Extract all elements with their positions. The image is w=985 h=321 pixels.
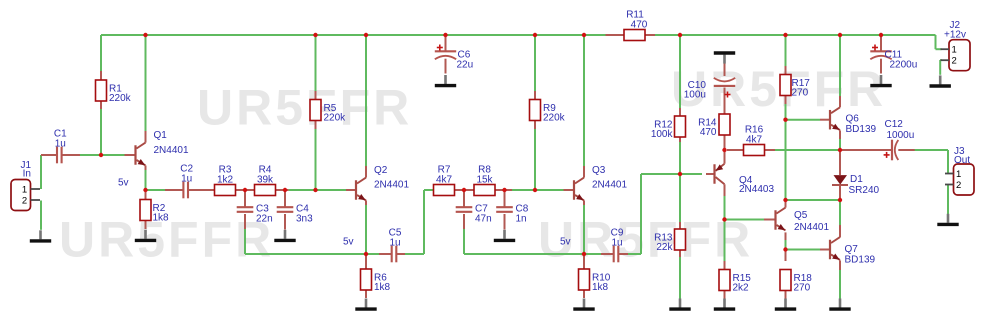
- wire: [62, 154, 80, 156]
- wire: [601, 253, 614, 255]
- wire: [724, 184, 726, 196]
- wire: [679, 222, 681, 229]
- wire: [275, 189, 289, 191]
- svg-text:C12: C12: [885, 119, 904, 130]
- resistor R16: [744, 125, 765, 156]
- svg-text:1u: 1u: [181, 174, 192, 185]
- junction: [838, 198, 842, 202]
- wire: [724, 152, 726, 164]
- capacitor C6: [435, 45, 474, 71]
- wire: [445, 37, 447, 51]
- wire: [379, 253, 392, 255]
- junction: [838, 148, 842, 152]
- ground (J1): [30, 230, 51, 241]
- svg-text:2N4401: 2N4401: [592, 180, 627, 191]
- wire: [645, 34, 656, 36]
- wire: [786, 249, 821, 251]
- wire: [564, 189, 575, 191]
- wire: [839, 260, 841, 270]
- wire: [315, 35, 317, 100]
- wire: [189, 189, 215, 191]
- wire: [284, 191, 286, 207]
- junction: [533, 188, 537, 192]
- ground (C10, inverted): [714, 53, 735, 64]
- wire: [463, 190, 465, 207]
- wire: [145, 131, 147, 143]
- wire: [244, 214, 246, 229]
- svg-text:1: 1: [956, 169, 961, 180]
- wire: [40, 201, 42, 230]
- diode D1: [832, 174, 880, 196]
- wire: [785, 250, 787, 262]
- ground (C11): [870, 75, 891, 86]
- svg-text:2N4403: 2N4403: [739, 184, 774, 195]
- svg-text:BD139: BD139: [846, 124, 877, 135]
- wire: [820, 249, 831, 251]
- wire: [463, 229, 465, 254]
- svg-text:270: 270: [794, 283, 811, 294]
- svg-text:1: 1: [952, 45, 957, 56]
- wire: [724, 291, 726, 300]
- wire: [244, 191, 246, 207]
- ground (R13): [669, 299, 690, 310]
- resistor R12: [651, 116, 686, 140]
- wire: [679, 137, 681, 142]
- svg-text:220k: 220k: [324, 113, 347, 124]
- watermark UR5FFR 1: [197, 80, 412, 136]
- wire: [145, 35, 147, 131]
- wire: [245, 253, 379, 255]
- wire: [839, 35, 841, 96]
- svg-text:1u: 1u: [611, 238, 622, 249]
- wire: [145, 170, 147, 190]
- wire: [706, 173, 715, 175]
- wire: [463, 191, 465, 207]
- capacitor C9: [611, 228, 624, 264]
- resistor R11: [624, 10, 648, 41]
- ground (C6): [435, 75, 456, 86]
- wire: [775, 149, 840, 151]
- wire: [41, 154, 57, 156]
- wire: [365, 200, 367, 205]
- watermark UR5FFR 4: [671, 61, 886, 117]
- wire: [839, 96, 841, 107]
- svg-text:2N4401: 2N4401: [794, 222, 829, 233]
- junction: [783, 247, 787, 251]
- resistor R10: [579, 269, 611, 293]
- junction: [313, 33, 317, 37]
- wire: [100, 35, 102, 155]
- svg-text:Out: Out: [954, 155, 970, 166]
- wire: [765, 149, 776, 151]
- wire: [786, 119, 821, 121]
- svg-text:2k2: 2k2: [733, 283, 750, 294]
- wire: [512, 189, 564, 191]
- ground (R15): [714, 299, 735, 310]
- wire: [679, 108, 681, 116]
- junction: [443, 33, 447, 37]
- wire: [896, 149, 914, 151]
- wire: [785, 251, 787, 261]
- wire: [839, 186, 841, 198]
- resistor R17: [780, 75, 810, 99]
- svg-text:47n: 47n: [475, 214, 492, 225]
- wire: [346, 189, 356, 191]
- wire: [80, 154, 125, 156]
- wire: [125, 154, 135, 156]
- wire: [655, 34, 936, 36]
- junction: [143, 188, 147, 192]
- junction: [783, 118, 787, 122]
- junction: [783, 33, 787, 37]
- wire: [235, 189, 255, 191]
- wire: [947, 185, 949, 215]
- junction: [99, 153, 103, 157]
- junction: [533, 33, 537, 37]
- wire: [785, 299, 787, 300]
- ground (C4): [274, 230, 295, 241]
- wire: [464, 253, 601, 255]
- svg-text:2: 2: [956, 180, 961, 191]
- wire: [101, 34, 606, 36]
- svg-text:4k7: 4k7: [746, 135, 763, 146]
- wire: [764, 219, 775, 221]
- wire: [165, 189, 183, 191]
- wire: [315, 121, 317, 130]
- transistor Q4: [715, 164, 775, 195]
- capacitor C4: [276, 204, 313, 225]
- wire: [724, 63, 726, 76]
- wire: [880, 35, 882, 37]
- junction: [364, 33, 368, 37]
- svg-text:Q6: Q6: [846, 114, 860, 125]
- wire: [365, 166, 367, 178]
- wire: [100, 71, 102, 80]
- svg-text:220k: 220k: [543, 113, 566, 124]
- resistor R8: [474, 165, 495, 196]
- wire: [785, 66, 787, 75]
- wire: [445, 58, 447, 74]
- junction: [678, 172, 682, 176]
- svg-text:2: 2: [22, 196, 27, 207]
- wire: [244, 190, 246, 207]
- svg-text:2: 2: [952, 56, 957, 67]
- svg-text:+12v: +12v: [944, 29, 966, 40]
- wire: [619, 253, 629, 255]
- resistor R5: [310, 100, 346, 124]
- node 5v (stage 2): [343, 237, 354, 248]
- wire: [724, 261, 726, 270]
- wire: [365, 205, 367, 254]
- junction: [879, 33, 883, 37]
- wire: [315, 121, 317, 191]
- svg-text:Q3: Q3: [592, 165, 606, 176]
- wire: [727, 149, 744, 151]
- wire: [679, 250, 681, 257]
- wire: [913, 149, 948, 151]
- svg-text:4k7: 4k7: [436, 175, 453, 186]
- svg-text:UR5FFR: UR5FFR: [197, 80, 412, 136]
- svg-text:2N4401: 2N4401: [154, 145, 189, 156]
- wire: [785, 291, 787, 300]
- wire: [880, 37, 882, 51]
- wire: [463, 214, 465, 229]
- svg-text:470: 470: [631, 20, 648, 31]
- svg-text:1k2: 1k2: [217, 175, 234, 186]
- wire: [534, 91, 536, 100]
- wire: [628, 253, 641, 255]
- junction: [582, 33, 586, 37]
- wire: [785, 96, 787, 105]
- connector J3: [945, 146, 974, 195]
- junction: [283, 188, 287, 192]
- wire: [839, 130, 841, 139]
- wire: [365, 35, 367, 166]
- wire: [583, 205, 585, 254]
- wire: [455, 189, 475, 191]
- resistor R18: [780, 270, 812, 294]
- resistor R4: [255, 165, 276, 196]
- wire: [583, 256, 585, 269]
- resistor R9: [530, 100, 566, 124]
- wire: [100, 101, 102, 109]
- svg-text:5v: 5v: [343, 237, 354, 248]
- wire: [397, 253, 406, 255]
- wire: [785, 240, 787, 250]
- svg-text:1k8: 1k8: [592, 282, 609, 293]
- wire: [936, 48, 942, 50]
- wire: [40, 155, 42, 189]
- capacitor C11: [870, 45, 917, 71]
- wire: [640, 174, 642, 254]
- wire: [534, 121, 536, 191]
- wire: [940, 59, 941, 61]
- wire: [839, 225, 841, 237]
- wire: [504, 214, 506, 230]
- wire: [724, 299, 726, 300]
- transistor Q5: [776, 208, 830, 233]
- wire: [839, 152, 841, 175]
- svg-text:SR240: SR240: [849, 185, 880, 196]
- wire: [939, 60, 941, 75]
- wire: [724, 220, 726, 262]
- wire: [679, 176, 681, 222]
- wire: [606, 34, 625, 36]
- wire: [842, 149, 891, 151]
- capacitor C10: [684, 78, 736, 101]
- svg-text:100u: 100u: [684, 90, 706, 101]
- wire: [641, 173, 702, 175]
- resistor R13: [654, 229, 685, 253]
- capacitor C7: [455, 204, 492, 225]
- svg-text:100k: 100k: [651, 129, 674, 140]
- capacitor C5: [389, 228, 402, 264]
- svg-text:1u: 1u: [55, 139, 66, 150]
- junction: [462, 188, 466, 192]
- wire: [365, 290, 367, 298]
- wire: [880, 58, 882, 74]
- wire: [679, 35, 681, 108]
- wire: [145, 221, 147, 230]
- capacitor C8: [496, 204, 529, 225]
- wire: [839, 270, 841, 300]
- svg-text:1u: 1u: [389, 238, 400, 249]
- wire: [583, 35, 585, 166]
- junction: [722, 148, 726, 152]
- resistor R15: [719, 270, 751, 294]
- wire: [724, 196, 726, 220]
- connector J2: [941, 20, 971, 71]
- transistor Q3: [574, 165, 627, 200]
- ground (C8): [494, 230, 515, 241]
- svg-text:Q1: Q1: [154, 130, 168, 141]
- transistor Q6: [830, 107, 877, 135]
- ground (J3): [937, 214, 958, 225]
- wire: [62, 154, 80, 156]
- svg-text:BD139: BD139: [845, 254, 876, 265]
- wire: [495, 189, 512, 191]
- svg-text:2N4401: 2N4401: [374, 180, 409, 191]
- ground (R2): [135, 230, 156, 241]
- wire: [724, 135, 726, 148]
- node 5v (stage 3): [560, 237, 571, 248]
- wire: [785, 232, 787, 240]
- svg-text:1: 1: [22, 185, 27, 196]
- resistor R1: [96, 80, 132, 104]
- wire: [284, 214, 286, 230]
- wire: [145, 191, 147, 200]
- svg-text:15k: 15k: [476, 175, 493, 186]
- svg-text:D1: D1: [850, 174, 863, 185]
- wire: [725, 219, 765, 221]
- wire: [724, 88, 726, 115]
- svg-text:1k8: 1k8: [153, 213, 170, 224]
- resistor R6: [361, 269, 391, 293]
- svg-text:5v: 5v: [560, 237, 571, 248]
- ground (Q7): [829, 299, 850, 310]
- wire: [583, 290, 585, 298]
- node 5v (stage 1): [118, 178, 129, 189]
- wire: [41, 154, 57, 156]
- ground (R6): [355, 299, 376, 310]
- transistor Q2: [356, 165, 409, 200]
- transistor Q1: [136, 130, 189, 165]
- wire: [679, 142, 681, 174]
- svg-text:22n: 22n: [256, 214, 273, 225]
- ground (J2): [930, 75, 951, 86]
- wire: [785, 96, 787, 120]
- wire: [785, 120, 787, 202]
- svg-text:470: 470: [700, 127, 717, 138]
- connector J1: [11, 160, 40, 211]
- wire: [947, 150, 949, 174]
- wire: [405, 253, 424, 255]
- junction: [364, 252, 368, 256]
- wire: [534, 121, 536, 130]
- capacitor C2: [180, 164, 193, 200]
- wire: [583, 166, 585, 178]
- wire: [284, 190, 286, 207]
- junction: [143, 33, 147, 37]
- svg-text:1000u: 1000u: [887, 130, 915, 141]
- junction: [678, 33, 682, 37]
- wire: [785, 35, 787, 73]
- junction: [838, 33, 842, 37]
- wire: [839, 139, 841, 150]
- svg-text:1k8: 1k8: [374, 282, 391, 293]
- svg-text:270: 270: [792, 88, 809, 99]
- wire: [785, 202, 787, 208]
- resistor R3: [215, 165, 236, 196]
- wire: [145, 166, 147, 171]
- resistor R2: [140, 200, 169, 224]
- svg-text:220k: 220k: [109, 93, 132, 104]
- capacitor C3: [236, 204, 273, 225]
- watermark UR5FFR 3: [538, 212, 753, 268]
- wire: [583, 200, 585, 205]
- wire: [679, 257, 681, 300]
- ground (R18): [775, 299, 796, 310]
- svg-text:Q2: Q2: [374, 165, 388, 176]
- svg-text:22k: 22k: [656, 242, 673, 253]
- capacitor C12: [884, 119, 915, 161]
- junction: [313, 188, 317, 192]
- svg-text:Q5: Q5: [794, 210, 808, 221]
- wire: [423, 190, 425, 254]
- svg-text:2200u: 2200u: [890, 60, 918, 71]
- wire: [244, 229, 246, 254]
- wire: [534, 35, 536, 100]
- ground (R10): [573, 299, 594, 310]
- svg-text:39k: 39k: [257, 175, 274, 186]
- junction: [582, 252, 586, 256]
- wire: [504, 191, 506, 207]
- svg-text:1n: 1n: [516, 214, 527, 225]
- svg-text:In: In: [23, 169, 31, 180]
- wire: [365, 256, 367, 269]
- wire: [935, 35, 937, 49]
- junction: [243, 188, 247, 192]
- svg-text:22u: 22u: [457, 60, 474, 71]
- transistor Q7: [830, 237, 876, 265]
- wire: [839, 202, 841, 225]
- wire: [146, 189, 166, 191]
- wire: [786, 199, 841, 201]
- capacitor C1: [54, 129, 67, 165]
- wire: [504, 190, 506, 207]
- resistor R14: [698, 114, 730, 138]
- wire: [289, 189, 346, 191]
- wire: [315, 91, 317, 100]
- resistor R7: [434, 165, 455, 196]
- junction: [502, 188, 506, 192]
- wire: [445, 35, 447, 37]
- wire: [820, 119, 831, 121]
- junction: [783, 198, 787, 202]
- watermark UR5FFR 2: [59, 212, 274, 268]
- svg-text:5v: 5v: [118, 178, 129, 189]
- junction: [722, 217, 726, 221]
- wire: [424, 189, 434, 191]
- svg-text:3n3: 3n3: [296, 214, 313, 225]
